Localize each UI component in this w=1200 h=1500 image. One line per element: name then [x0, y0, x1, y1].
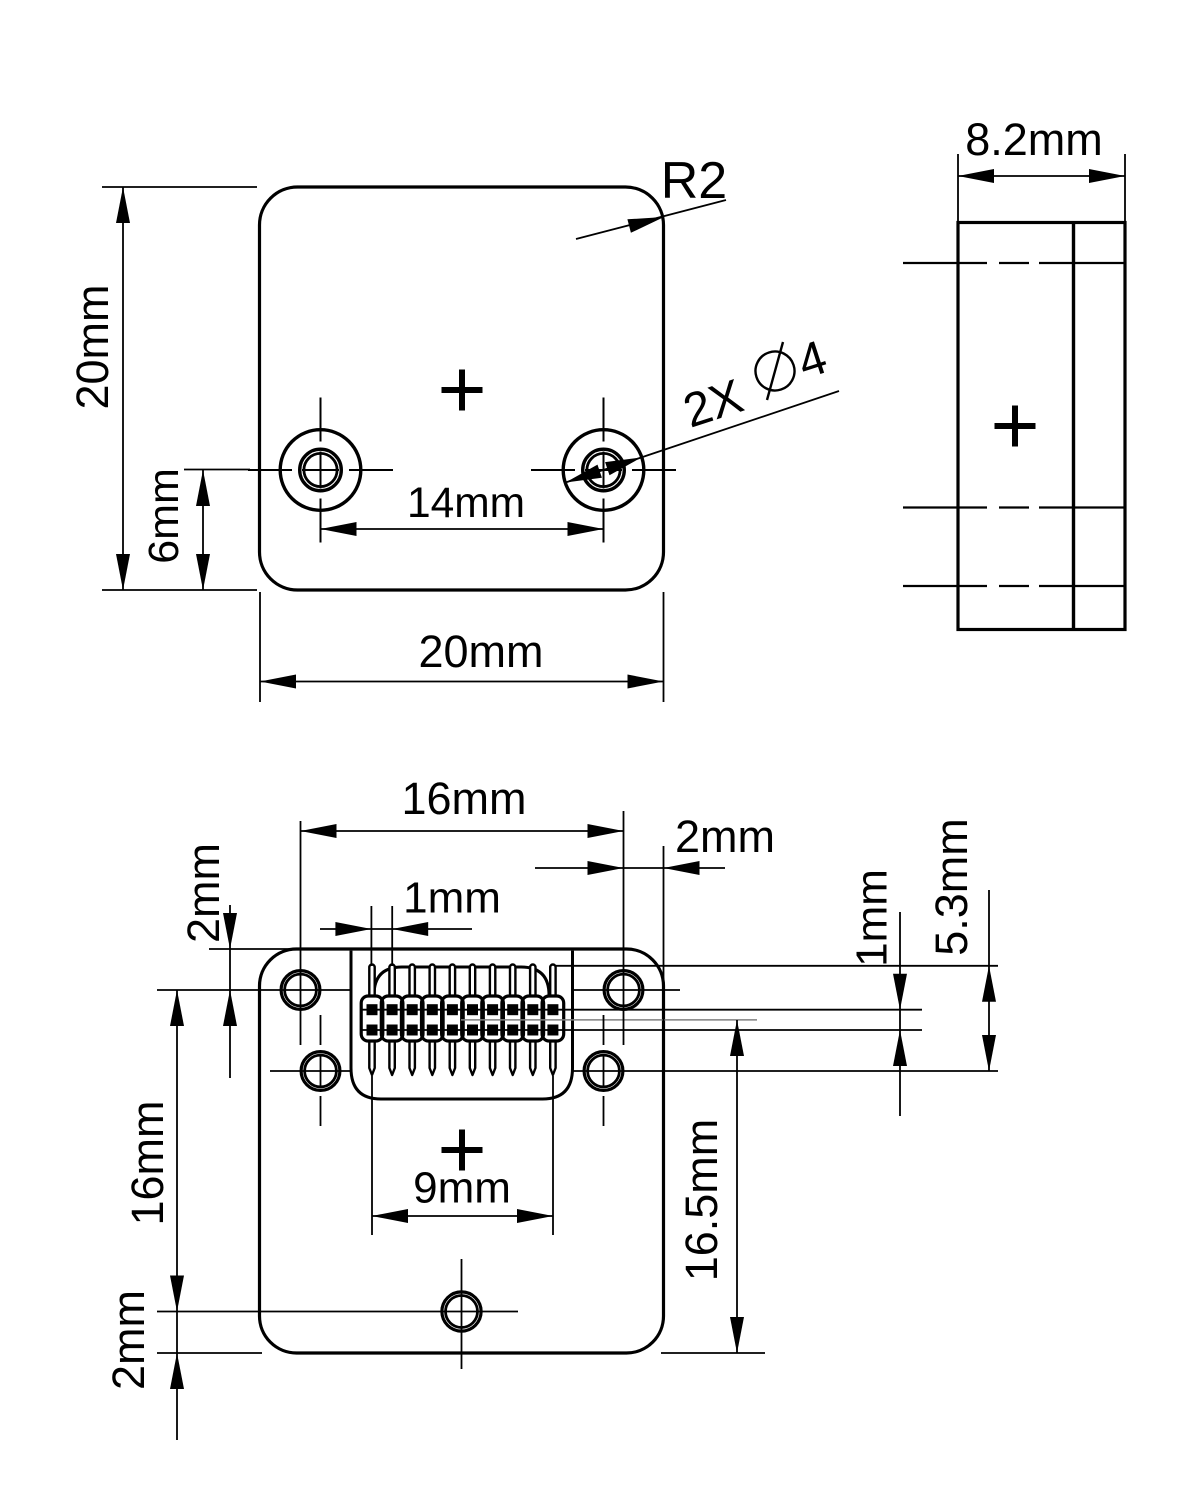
connector pins bottom row (10 pins) — [369, 1035, 374, 1076]
connector pins top row (10 pins) — [369, 965, 374, 1006]
bottom hole mid-left vertical centerline — [320, 1015, 322, 1126]
dim 1mm right arrows — [893, 974, 907, 1010]
svg-text:16mm: 16mm — [401, 773, 526, 824]
R2 leader arrow — [627, 217, 664, 233]
dim 2mm top-left dimension line — [229, 905, 231, 1078]
svg-text:R2: R2 — [661, 152, 727, 210]
svg-text:2mm: 2mm — [178, 843, 229, 943]
dim 16mm left arrows — [170, 990, 184, 1026]
dim 16.5mm dimension line — [736, 1020, 738, 1353]
front hole left crosshair — [248, 469, 393, 471]
dim 2mm top-right arrows — [588, 861, 624, 875]
dia4 diameter arrows — [566, 465, 602, 483]
dia4 diameter line through right hole — [566, 457, 642, 482]
bottom hole top-left vertical centerline — [300, 821, 302, 1045]
dim 8.2mm dimension line — [958, 175, 1125, 177]
side view parting line — [1072, 223, 1075, 630]
svg-text:16mm: 16mm — [122, 1100, 173, 1225]
dim 2mm top-left extension line — [209, 948, 293, 950]
bottom hole mid-right vertical centerline — [603, 1015, 605, 1126]
front hole right crosshair — [531, 469, 676, 471]
bottom hole mid-right — [584, 1052, 623, 1091]
dim 1mm top extension lines — [370, 906, 372, 966]
side view hidden centerline bottom — [903, 585, 1125, 587]
dim 5.3mm right dimension line — [988, 890, 990, 1071]
dim 1mm top dimension line — [320, 928, 472, 930]
connector pin pads (10 capsules) — [361, 996, 383, 1041]
front hole left inner rings — [300, 449, 342, 491]
R2 leader line — [576, 200, 726, 239]
svg-text:9mm: 9mm — [413, 1163, 511, 1212]
dim 20mm bottom extension lines — [259, 592, 261, 702]
svg-text:20mm: 20mm — [418, 626, 543, 677]
svg-text:8.2mm: 8.2mm — [965, 114, 1103, 165]
bottom hole bottom-center vertical centerline — [461, 1259, 463, 1369]
bottom hole mid-left — [301, 1052, 340, 1091]
label diameter symbol — [750, 346, 799, 395]
dim 2mm bottom-left arrow up — [170, 1353, 184, 1389]
dim 20mm left dimension line — [122, 187, 124, 590]
svg-text:14mm: 14mm — [407, 480, 525, 527]
line hole row top (2mm ref) — [157, 989, 352, 991]
front view center mark — [442, 370, 483, 411]
line second hole row / 5.3mm bottom ref — [270, 1070, 352, 1072]
bottom hole top-right vertical centerline — [623, 811, 625, 1045]
bottom view center mark — [442, 1130, 483, 1171]
dim 20mm left extension lines — [102, 186, 257, 188]
svg-text:2mm: 2mm — [103, 1290, 154, 1390]
svg-text:20mm: 20mm — [67, 284, 118, 409]
bottom hole top-left — [281, 971, 320, 1010]
dim 8.2mm arrows — [958, 169, 994, 183]
svg-text:16.5mm: 16.5mm — [676, 1119, 727, 1282]
connector body dome — [374, 967, 549, 1042]
connector pad contacts (2x10 squares) — [367, 1004, 378, 1015]
dim 6mm extension line — [184, 469, 250, 471]
dim 16mm top arrows — [301, 824, 337, 838]
label 4 — [792, 331, 834, 390]
side view hidden centerline middle — [903, 506, 1125, 508]
dim 1mm top arrows — [335, 922, 371, 936]
line bottom hole row (2mm ref) — [157, 1311, 518, 1313]
pad row line 2 (1mm ref bottom) — [361, 1029, 922, 1031]
dim 2mm bottom-left dimension line — [176, 1312, 178, 1441]
dim 14mm dimension line — [321, 528, 604, 530]
dim 2mm top-left arrows — [223, 913, 237, 949]
bottom hole top-right — [604, 971, 643, 1010]
pad row line 1 (1mm ref top) — [361, 1009, 922, 1011]
dim 20mm bottom dimension line — [260, 681, 664, 683]
dim 8.2mm extension lines — [957, 154, 959, 222]
line plate bottom extension left — [157, 1352, 262, 1354]
front hole left outer circle (counterbore) — [280, 430, 361, 511]
svg-text:6mm: 6mm — [140, 468, 188, 564]
svg-text:1mm: 1mm — [403, 873, 501, 922]
label 2X — [677, 370, 749, 439]
svg-text:1mm: 1mm — [847, 869, 896, 967]
dim 16mm left dimension line — [176, 990, 178, 1311]
dim 6mm arrows — [196, 470, 210, 506]
dim 16.5mm arrows — [730, 1020, 744, 1056]
line connector top / 5.3mm top ref — [556, 965, 998, 967]
dim 20mm left arrows — [116, 187, 130, 223]
svg-text:5.3mm: 5.3mm — [926, 818, 977, 956]
dim 6mm dimension line — [202, 470, 204, 590]
connector cutout outline — [351, 951, 573, 1099]
dim 9mm extension lines — [371, 1076, 373, 1235]
side view center mark — [995, 406, 1036, 447]
bottom view plate outline — [260, 949, 664, 1353]
pad centerline gray (16.5mm ref) — [461, 1019, 757, 1021]
dim 9mm dimension line — [372, 1215, 553, 1217]
side view outline 8.2mm wide — [958, 223, 1125, 630]
line plate bottom extension right — [661, 1352, 765, 1354]
svg-text:2mm: 2mm — [675, 811, 775, 862]
dim 14mm arrows — [321, 522, 357, 536]
dim 5.3mm right arrows — [982, 966, 996, 1002]
side view hidden centerline top — [903, 262, 1125, 264]
dia4 leader tail — [642, 391, 840, 457]
dim 9mm arrows — [372, 1209, 408, 1223]
dim 16mm top dimension line — [301, 830, 624, 832]
dim 2mm top-right extension line — [663, 846, 665, 1085]
front view plate outline 20x20mm — [260, 187, 664, 590]
front hole right outer circle (counterbore) — [563, 430, 644, 511]
dim 20mm bottom arrows — [260, 675, 296, 689]
bottom hole bottom-center — [442, 1292, 481, 1331]
dim 2mm top-right dimension line — [535, 867, 725, 869]
front hole right inner rings — [583, 449, 625, 491]
dim 1mm right dimension line — [899, 912, 901, 1116]
